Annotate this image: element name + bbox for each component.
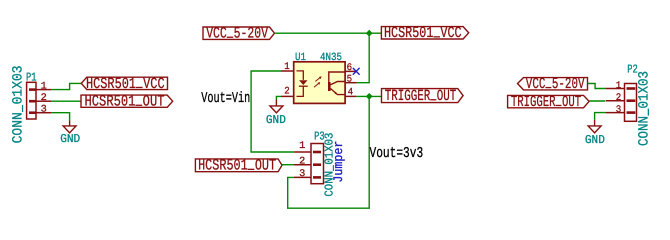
svg-text:Jumper: Jumper [331, 141, 346, 183]
ground symbol U1 [270, 100, 283, 113]
global label HCSR501_OUT (bottom) [195, 157, 282, 175]
connector P2 [606, 84, 637, 122]
svg-text:HCSR501 VCC: HCSR501 VCC [384, 24, 462, 42]
svg-text:4N35: 4N35 [320, 52, 342, 64]
wire U1 pin2 to GND [276, 96, 281, 99]
LED inside U1 [297, 71, 308, 97]
global label TRIGGER_OUT (right) [508, 93, 589, 111]
svg-text:CONN 01X03: CONN 01X03 [11, 65, 27, 143]
svg-text:TRIGGER OUT: TRIGGER OUT [511, 93, 581, 111]
svg-text:1: 1 [616, 81, 622, 92]
svg-text:3: 3 [41, 105, 47, 116]
junction pin4 [366, 93, 373, 100]
svg-text:3: 3 [299, 169, 305, 180]
wire pin4 to TRIGGER_OUT [356, 95, 381, 97]
svg-text:2: 2 [284, 87, 290, 98]
svg-text:VCC 5-20V: VCC 5-20V [526, 75, 585, 93]
global label TRIGGER_OUT [382, 87, 464, 105]
op-amp U1 body (4N35 optocoupler) [294, 62, 345, 104]
no-connect X on pin 6 [353, 68, 360, 75]
svg-text:GND: GND [585, 133, 605, 147]
svg-text:GND: GND [266, 113, 286, 127]
svg-text:2: 2 [299, 156, 305, 167]
svg-text:4: 4 [348, 87, 354, 98]
wire junction down to pin5 [357, 33, 370, 82]
wire P2 pin3 to GND [595, 113, 606, 120]
svg-text:U1: U1 [295, 52, 306, 64]
wire P1 pin2 to HCSR501_OUT [51, 100, 81, 102]
global label VCC_5-20V (right) [518, 75, 588, 93]
svg-text:VCC 5-20V: VCC 5-20V [206, 25, 268, 43]
wire junction pin4 down, around to P3 pin3 [288, 96, 370, 208]
svg-text:5: 5 [347, 74, 353, 85]
connector P3 [294, 144, 324, 184]
photon arrows [314, 76, 322, 87]
svg-text:1: 1 [284, 62, 290, 73]
U1 pin 6 [345, 70, 356, 72]
svg-text:HCSR501 VCC: HCSR501 VCC [86, 75, 165, 93]
svg-text:2: 2 [41, 93, 47, 104]
wire P1 pin1 to HCSR501_VCC [51, 83, 81, 89]
wire P1 pin3 to GND [51, 113, 70, 120]
U1 pin 4 [345, 95, 356, 97]
svg-text:TRIGGER OUT: TRIGGER OUT [385, 87, 457, 105]
svg-text:1: 1 [41, 82, 47, 93]
U1 pin 1 [281, 70, 294, 72]
ground symbol P2 [588, 120, 601, 133]
svg-text:P1: P1 [26, 71, 37, 85]
svg-text:HCSR501 OUT: HCSR501 OUT [85, 93, 165, 111]
global label VCC_5-20V (top) [203, 25, 275, 43]
svg-text:Vout=Vin: Vout=Vin [201, 90, 250, 107]
global label HCSR501_VCC (top right) [381, 24, 468, 42]
wire VCC label to P2 pin1 [588, 84, 607, 89]
wire U1 pin1 left and down to P3 pin1 [251, 71, 294, 152]
phototransistor inside U1 [329, 72, 345, 95]
global label HCSR501_VCC (left) [81, 75, 167, 93]
wire VCC to junction to HCSR501_VCC [275, 32, 382, 34]
svg-text:6: 6 [347, 63, 353, 74]
svg-text:CONN 01X03: CONN 01X03 [636, 71, 652, 146]
ground symbol P1 [63, 120, 76, 133]
wire label to P3 pin2 [282, 164, 294, 166]
U1 pin 5 [345, 82, 357, 84]
junction top [366, 30, 373, 37]
svg-text:3: 3 [616, 105, 622, 116]
svg-text:1: 1 [299, 141, 305, 152]
connector P1 [27, 82, 51, 119]
svg-text:2: 2 [616, 93, 622, 104]
svg-text:HCSR501 OUT: HCSR501 OUT [198, 157, 276, 175]
svg-text:Vout=3v3: Vout=3v3 [370, 145, 424, 162]
U1 pin 2 [281, 95, 294, 97]
svg-text:GND: GND [60, 132, 80, 146]
global label HCSR501_OUT (left) [81, 93, 173, 111]
wire TRIGGER label to P2 pin2 [589, 100, 605, 102]
